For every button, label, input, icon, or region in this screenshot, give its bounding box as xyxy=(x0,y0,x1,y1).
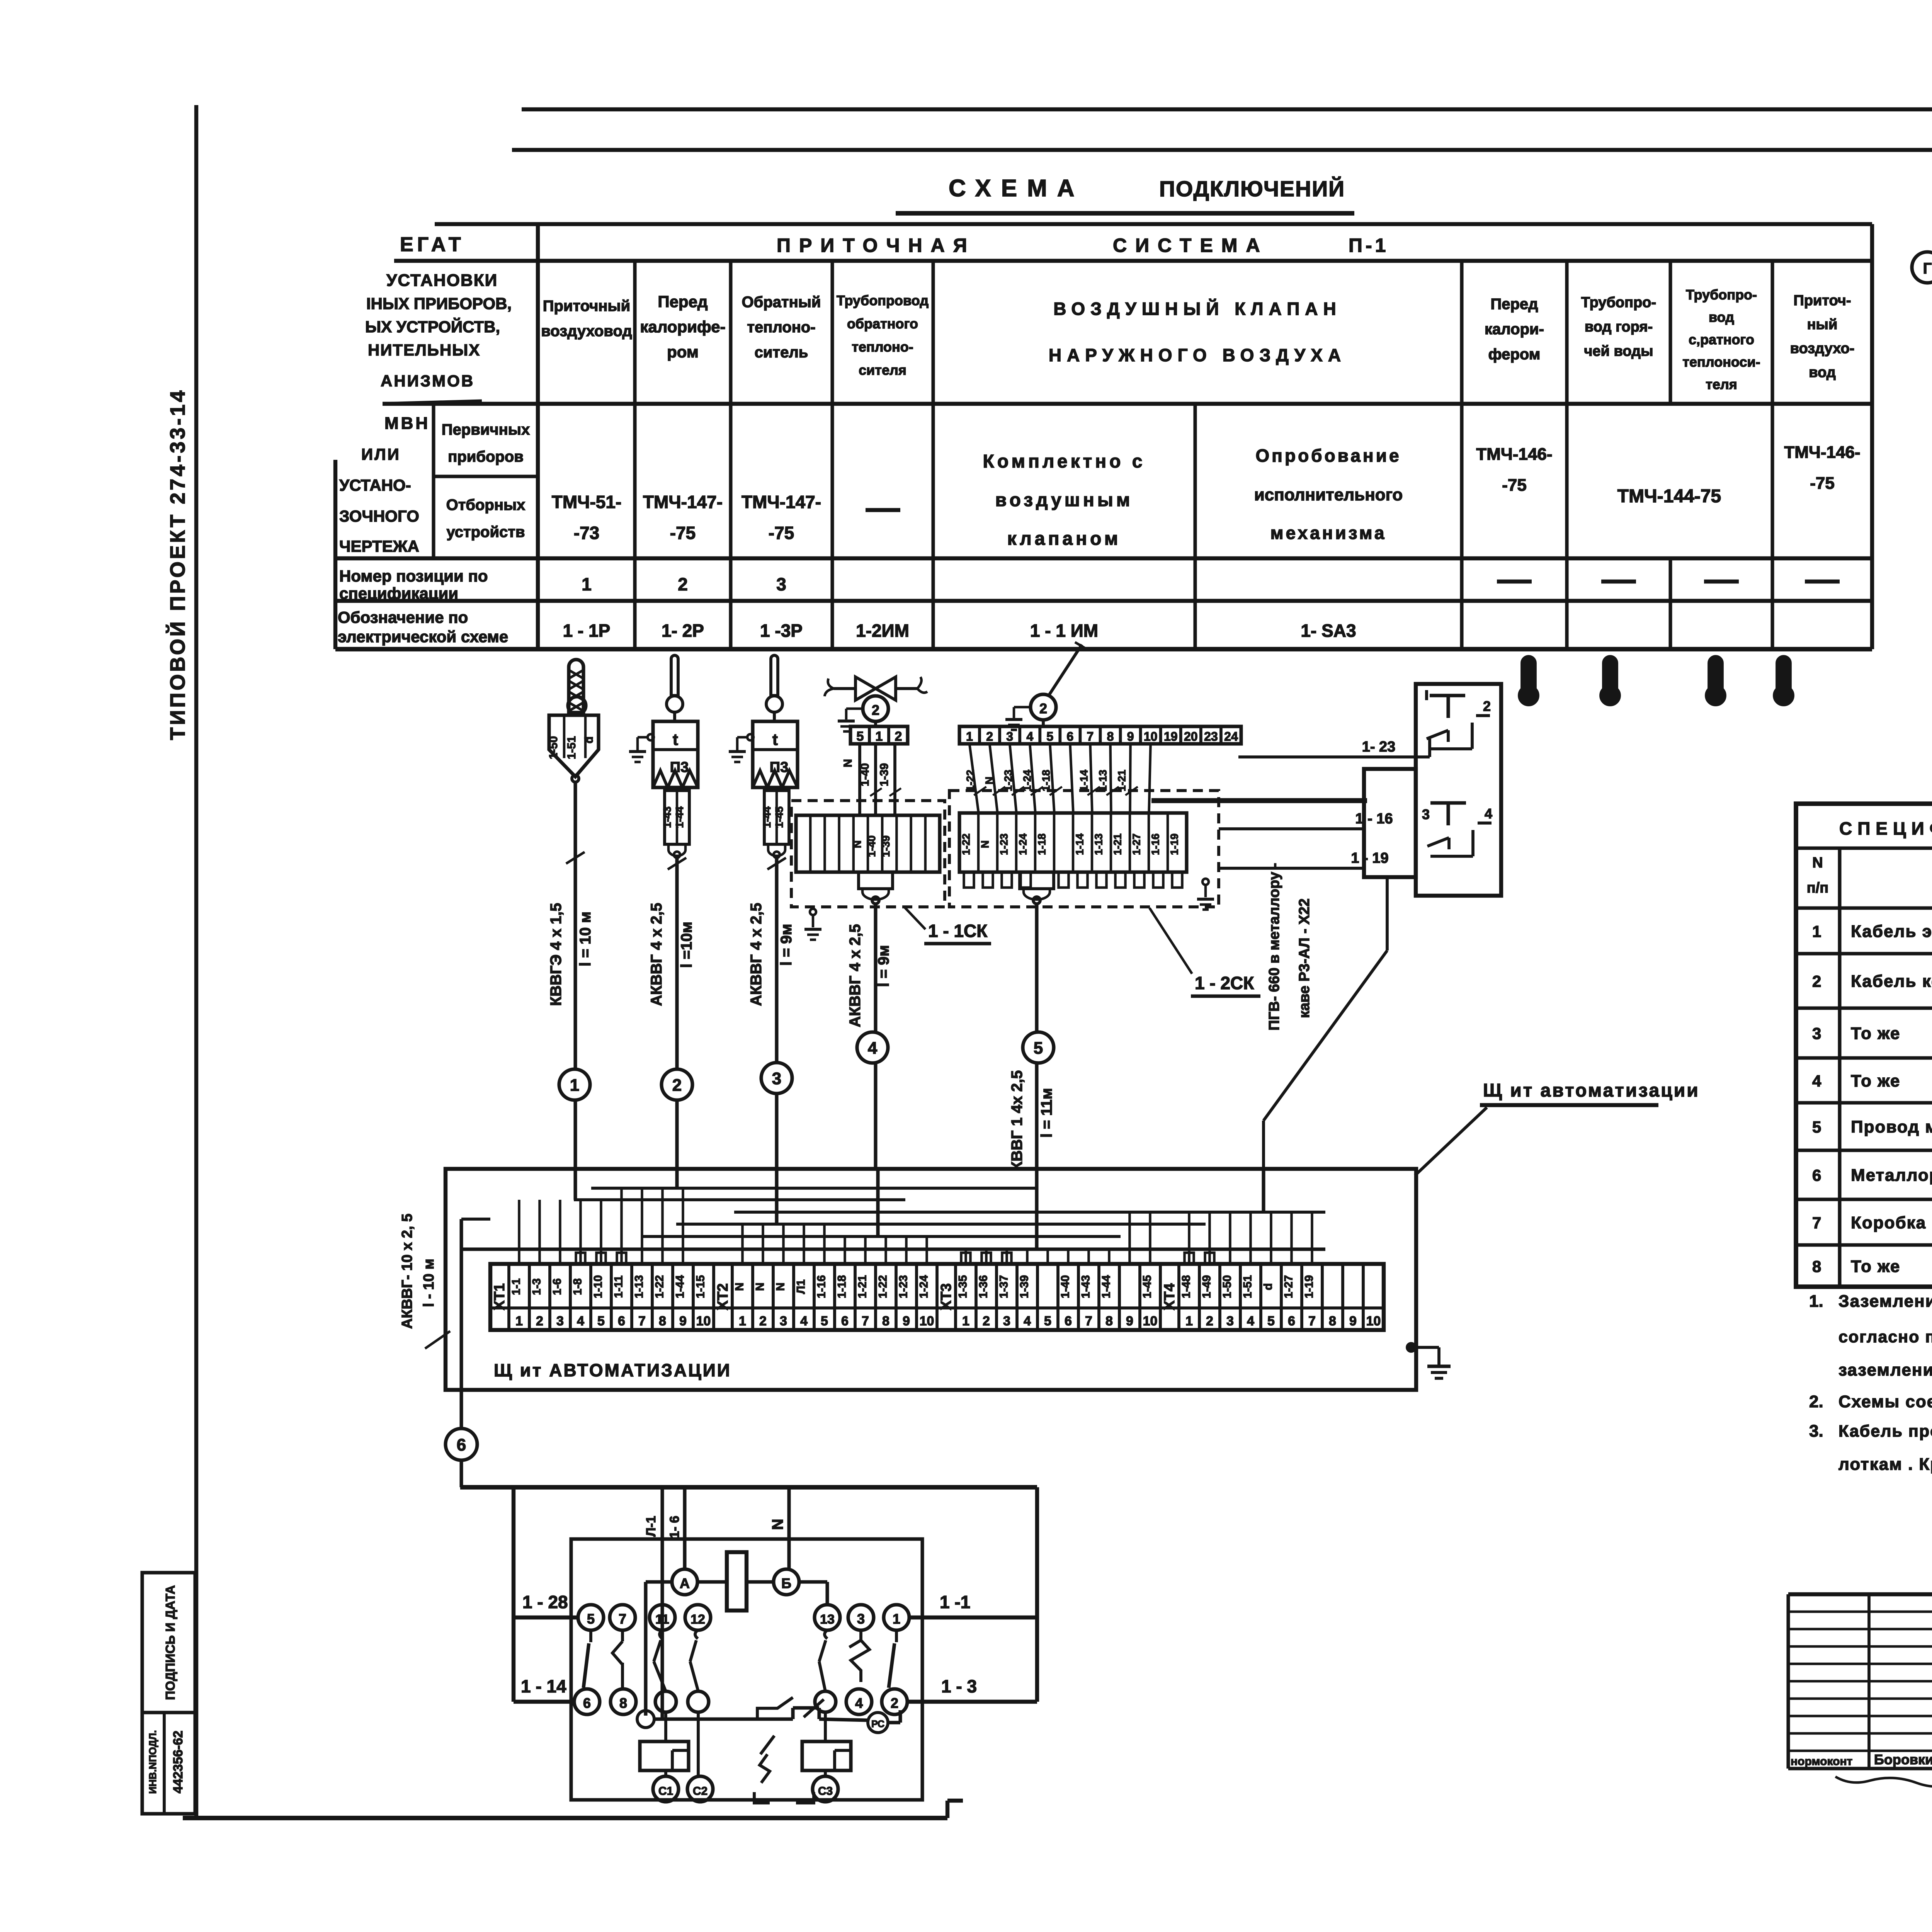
svg-text:7: 7 xyxy=(638,1314,646,1328)
terminal 8 xyxy=(611,1689,636,1714)
svg-text:5: 5 xyxy=(821,1314,828,1328)
title block left grid xyxy=(1788,1611,1932,1613)
junction box 1-1СК (dashed) xyxy=(791,801,945,907)
svg-text:3: 3 xyxy=(1226,1314,1234,1328)
svg-text:1-43: 1-43 xyxy=(1080,1275,1092,1298)
relay circuit right drop wire xyxy=(1035,1487,1039,1702)
svg-text:1-45: 1-45 xyxy=(1141,1275,1154,1298)
svg-text:Металлорукав: Металлорукав xyxy=(1851,1166,1932,1185)
svg-text:воздушным: воздушным xyxy=(995,490,1133,510)
svg-text:3: 3 xyxy=(556,1314,564,1328)
svg-text:теплоно-: теплоно- xyxy=(747,319,815,336)
terminal strip below sensor xyxy=(665,791,689,844)
svg-text:1 - 1СК: 1 - 1СК xyxy=(928,921,988,941)
svg-text:нормоконт: нормоконт xyxy=(1791,1755,1852,1768)
svg-text:1-36: 1-36 xyxy=(977,1275,990,1298)
svg-text:1-11: 1-11 xyxy=(612,1276,625,1298)
contact 13 xyxy=(825,1630,827,1639)
svg-text:12: 12 xyxy=(690,1612,705,1627)
terminal 13 xyxy=(815,1605,840,1630)
wire 1-6 into relay xyxy=(683,1487,686,1569)
svg-text:1- 23: 1- 23 xyxy=(1362,739,1396,755)
svg-text:5: 5 xyxy=(587,1611,595,1627)
panel left cable down to relay circuit xyxy=(459,1219,463,1429)
svg-text:3: 3 xyxy=(776,574,786,594)
pad under 13 xyxy=(815,1691,836,1712)
svg-text:6: 6 xyxy=(1288,1314,1295,1328)
svg-text:1-40: 1-40 xyxy=(859,763,871,786)
svg-text:вод горя-: вод горя- xyxy=(1585,319,1653,335)
panel ground (right) xyxy=(1407,1344,1415,1351)
sensor П3 at x=2004 xyxy=(771,655,778,696)
svg-text:лоткам . Крепить скобками.: лоткам . Крепить скобками. xyxy=(1838,1455,1932,1474)
svg-text:9: 9 xyxy=(903,1314,910,1328)
svg-text:электрической схеме: электрической схеме xyxy=(338,628,508,646)
svg-text:Перед: Перед xyxy=(658,293,707,311)
svg-text:19: 19 xyxy=(1164,730,1178,743)
svg-text:ВОЗДУШНЫЙ КЛАПАН: ВОЗДУШНЫЙ КЛАПАН xyxy=(1053,299,1341,319)
sensor B1 duct thermometer (hatched) xyxy=(569,660,583,713)
svg-text:1 - 16: 1 - 16 xyxy=(1355,811,1393,827)
svg-text:ТМЧ-51-: ТМЧ-51- xyxy=(552,492,622,512)
plan axis Г circle xyxy=(1912,252,1932,283)
terminal strip below sensor xyxy=(764,791,789,844)
node C3 xyxy=(813,1776,838,1802)
svg-text:ХТ1: ХТ1 xyxy=(492,1283,508,1310)
leader 1-1СК xyxy=(904,907,925,929)
svg-text:приборов: приборов xyxy=(448,448,524,465)
svg-text:7: 7 xyxy=(1087,730,1094,743)
svg-text:НИТЕЛЬНЫХ: НИТЕЛЬНЫХ xyxy=(368,341,480,359)
terminal 2 xyxy=(882,1689,907,1714)
svg-text:1-50: 1-50 xyxy=(1221,1275,1234,1298)
wire Л1 into relay xyxy=(660,1487,664,1719)
svg-text:2: 2 xyxy=(759,1314,767,1328)
svg-text:9: 9 xyxy=(679,1314,687,1328)
svg-text:ПОДПИСЬ И ДАТА: ПОДПИСЬ И ДАТА xyxy=(163,1585,177,1700)
svg-text:4: 4 xyxy=(868,1039,878,1058)
svg-text:1-48: 1-48 xyxy=(1180,1275,1193,1298)
svg-text:Перед: Перед xyxy=(1490,296,1538,313)
svg-text:Номер позиции по: Номер позиции по xyxy=(339,567,488,585)
svg-text:Г: Г xyxy=(1923,260,1932,277)
svg-text:7: 7 xyxy=(1812,1214,1821,1232)
connection box КСК-8 (small) xyxy=(1364,769,1416,877)
sensor B1 connection head with labels 1-50 1-51 d xyxy=(549,715,599,777)
svg-text:8: 8 xyxy=(1812,1257,1821,1276)
terminal 4 xyxy=(846,1689,872,1714)
svg-text:Приточный: Приточный xyxy=(543,298,630,315)
svg-text:1: 1 xyxy=(893,1611,900,1627)
svg-text:l = 10 м: l = 10 м xyxy=(577,912,594,966)
svg-text:3: 3 xyxy=(1003,1314,1010,1328)
svg-text:7: 7 xyxy=(619,1611,626,1627)
svg-text:3: 3 xyxy=(857,1611,865,1627)
svg-text:1-51: 1-51 xyxy=(1242,1275,1254,1298)
svg-text:-75: -75 xyxy=(1502,476,1527,495)
svg-text:1-43: 1-43 xyxy=(661,806,673,828)
svg-text:1-40: 1-40 xyxy=(1059,1275,1072,1298)
terminal 3 xyxy=(848,1605,874,1630)
svg-text:1 - 19: 1 - 19 xyxy=(1351,850,1388,866)
node A xyxy=(672,1569,697,1595)
wire W1 from sensor B1 down xyxy=(573,782,577,1069)
svg-text:Первичных: Первичных xyxy=(442,421,530,438)
svg-text:l = 11м: l = 11м xyxy=(1038,1088,1055,1138)
wires from long strip into 1-2СК xyxy=(969,744,978,813)
terminal 7 xyxy=(610,1605,635,1630)
svg-text:1-8: 1-8 xyxy=(571,1278,584,1295)
sheet frame top line 2 xyxy=(512,148,1932,152)
svg-text:механизма: механизма xyxy=(1270,523,1387,543)
svg-text:1-50: 1-50 xyxy=(547,736,560,759)
svg-text:1-23: 1-23 xyxy=(897,1275,910,1298)
svg-text:4: 4 xyxy=(1485,806,1492,821)
long terminal strip 1..24 xyxy=(959,726,1241,744)
svg-text:1-22: 1-22 xyxy=(964,770,976,791)
svg-text:ТМЧ-147-: ТМЧ-147- xyxy=(643,492,723,512)
svg-text:ром: ром xyxy=(667,343,699,361)
junction bus in relay xyxy=(637,1711,654,1728)
svg-text:1-21: 1-21 xyxy=(1116,770,1128,791)
svg-text:Трубопровод: Трубопровод xyxy=(837,293,929,308)
svg-text:1-37: 1-37 xyxy=(998,1275,1010,1298)
wire N into relay xyxy=(787,1487,791,1569)
svg-text:Комплектно с: Комплектно с xyxy=(983,451,1146,472)
svg-text:ХТ4: ХТ4 xyxy=(1162,1283,1178,1310)
svg-text:каве Р3-АЛ - Х22: каве Р3-АЛ - Х22 xyxy=(1296,898,1313,1018)
connection box КСК-16 (outer) xyxy=(1416,684,1501,896)
svg-text:1: 1 xyxy=(570,1076,579,1095)
internal wires in КСК boxes xyxy=(1416,755,1430,759)
1-2СК cable gland xyxy=(1020,872,1054,889)
svg-text:обратного: обратного xyxy=(847,316,918,332)
svg-text:N: N xyxy=(733,1282,746,1291)
valve actuator circle 2 xyxy=(874,694,877,696)
svg-text:ПГВ- 660 в металлору -: ПГВ- 660 в металлору - xyxy=(1266,863,1282,1031)
node C1 xyxy=(653,1776,679,1802)
svg-text:ХТ3: ХТ3 xyxy=(938,1283,954,1310)
svg-text:Боровкин: Боровкин xyxy=(1874,1752,1932,1767)
svg-text:1-1: 1-1 xyxy=(510,1278,523,1295)
svg-text:заземления.: заземления. xyxy=(1838,1361,1932,1379)
valve terminal strip 5 1 2 xyxy=(874,721,877,726)
svg-text:Б: Б xyxy=(781,1575,791,1591)
svg-text:7: 7 xyxy=(1308,1314,1316,1328)
svg-text:1-39: 1-39 xyxy=(880,835,892,857)
svg-text:ИЛИ: ИЛИ xyxy=(361,445,401,463)
svg-text:6: 6 xyxy=(1812,1166,1821,1184)
wires from valve strip to box 1-1СК xyxy=(858,744,861,815)
sensor B1 head circle xyxy=(568,697,586,714)
svg-text:l - 10 м: l - 10 м xyxy=(421,1259,437,1307)
wire from КСК down to panel xyxy=(1262,1121,1265,1169)
svg-text:N: N xyxy=(1812,855,1823,871)
svg-text:воздухо-: воздухо- xyxy=(1790,340,1855,357)
svg-text:1-35: 1-35 xyxy=(957,1275,969,1298)
svg-text:2: 2 xyxy=(672,1076,682,1095)
svg-text:То же: То же xyxy=(1851,1024,1900,1043)
sheet frame top line 1 xyxy=(522,107,1932,111)
svg-text:1-23: 1-23 xyxy=(998,833,1010,855)
svg-text:1: 1 xyxy=(739,1314,746,1328)
svg-text:1-10: 1-10 xyxy=(592,1275,605,1298)
svg-text:-75: -75 xyxy=(670,523,696,543)
svg-text:согласно правил устройства: согласно правил устройства электроустано… xyxy=(1838,1328,1932,1346)
svg-text:1-22: 1-22 xyxy=(960,833,972,855)
svg-text:КВВГЭ 4 х 1,5: КВВГЭ 4 х 1,5 xyxy=(548,903,565,1006)
svg-text:ЧЕРТЕЖА: ЧЕРТЕЖА xyxy=(339,537,419,555)
svg-text:1-22: 1-22 xyxy=(877,1275,889,1298)
svg-text:1-23: 1-23 xyxy=(1002,770,1014,791)
terminal 1 xyxy=(884,1605,909,1630)
svg-text:АНИЗМОВ: АНИЗМОВ xyxy=(381,372,474,390)
svg-text:1 - 1 ИМ: 1 - 1 ИМ xyxy=(1030,621,1098,641)
wire 1-1 from terminal 1 xyxy=(909,1616,1037,1619)
svg-text:ПОДКЛЮЧЕНИЙ: ПОДКЛЮЧЕНИЙ xyxy=(1159,176,1345,201)
svg-text:1-13: 1-13 xyxy=(1097,770,1109,791)
svg-text:ТМЧ-146-: ТМЧ-146- xyxy=(1476,445,1552,464)
svg-text:1-44: 1-44 xyxy=(674,1275,687,1298)
svg-text:13: 13 xyxy=(820,1612,835,1627)
svg-text:1-15: 1-15 xyxy=(694,1275,707,1298)
svg-text:8: 8 xyxy=(1329,1314,1336,1328)
svg-text:5: 5 xyxy=(1034,1039,1043,1058)
svg-text:1 - 28: 1 - 28 xyxy=(522,1592,568,1612)
svg-text:1-27: 1-27 xyxy=(1131,833,1143,855)
svg-text:фером: фером xyxy=(1488,346,1541,363)
svg-text:1.: 1. xyxy=(1809,1292,1823,1311)
thermometer at x=4616 xyxy=(1777,656,1790,692)
svg-text:калори-: калори- xyxy=(1485,321,1544,338)
node circle 5 xyxy=(1023,1032,1054,1063)
svg-text:3: 3 xyxy=(780,1314,787,1328)
svg-text:4: 4 xyxy=(1247,1314,1254,1328)
ground at 1-2СК right xyxy=(1202,879,1209,885)
wire to C1 xyxy=(664,1712,667,1742)
contact 7-8 with hook xyxy=(621,1630,624,1641)
svg-text:2: 2 xyxy=(872,702,879,718)
svg-text:Провод медный: Провод медный xyxy=(1851,1117,1932,1136)
svg-text:1- 6: 1- 6 xyxy=(667,1516,682,1539)
svg-text:1-40: 1-40 xyxy=(866,835,878,857)
svg-text:УСТАНОВКИ: УСТАНОВКИ xyxy=(386,271,498,290)
svg-text:2: 2 xyxy=(678,574,688,594)
svg-text:КВВГ 1 4х 2,5: КВВГ 1 4х 2,5 xyxy=(1009,1070,1026,1171)
svg-text:1 - 2СК: 1 - 2СК xyxy=(1195,973,1254,993)
svg-text:8: 8 xyxy=(619,1695,627,1711)
svg-text:1-39: 1-39 xyxy=(878,763,891,786)
svg-text:1-16: 1-16 xyxy=(1150,833,1162,855)
relay coil C1 element xyxy=(640,1742,689,1770)
node circle 3 xyxy=(761,1063,792,1094)
svg-text:1-6: 1-6 xyxy=(551,1278,564,1295)
svg-text:СХЕМА: СХЕМА xyxy=(949,175,1085,202)
svg-text:1 - 14: 1 - 14 xyxy=(521,1676,566,1696)
1-1СК terminal row xyxy=(796,815,940,872)
svg-text:1: 1 xyxy=(966,730,973,743)
svg-text:1-21: 1-21 xyxy=(1112,833,1124,855)
svg-text:Коробка соединительная: Коробка соединительная xyxy=(1851,1213,1932,1232)
svg-text:чей воды: чей воды xyxy=(1584,343,1653,359)
svg-text:2: 2 xyxy=(986,730,993,743)
svg-text:N: N xyxy=(774,1282,787,1291)
svg-text:Кабель экранированный: Кабель экранированный xyxy=(1851,922,1932,941)
svg-text:Щ ит АВТОМАТИЗАЦИИ: Щ ит АВТОМАТИЗАЦИИ xyxy=(494,1360,731,1380)
thermometer at x=3956 xyxy=(1522,656,1535,692)
svg-text:9: 9 xyxy=(1127,730,1134,743)
contact 1-2 xyxy=(895,1630,898,1642)
svg-text:2: 2 xyxy=(1483,698,1491,714)
node circle 6 xyxy=(446,1429,477,1460)
svg-text:10: 10 xyxy=(1366,1314,1381,1328)
panel internal distribution wiring xyxy=(461,1247,1325,1251)
svg-text:Приточ-: Приточ- xyxy=(1794,293,1851,309)
svg-text:теплоноси-: теплоноси- xyxy=(1682,354,1760,370)
spec table СПЕЦИФИКАЦИЯ МОНТАЖНЫХ ИЗДЕЛИЙ xyxy=(1796,804,1932,1287)
svg-text:4: 4 xyxy=(1024,1314,1031,1328)
terminal 6 xyxy=(574,1689,600,1714)
svg-text:1: 1 xyxy=(582,574,592,594)
svg-text:3: 3 xyxy=(1006,730,1013,743)
svg-text:воздуховод: воздуховод xyxy=(541,323,632,340)
1-2СК terminal row xyxy=(959,813,1187,872)
coil connection wires xyxy=(697,1580,727,1583)
svg-text:7: 7 xyxy=(1085,1314,1092,1328)
svg-text:8: 8 xyxy=(659,1314,666,1328)
svg-text:24: 24 xyxy=(1224,730,1238,743)
relay circuit left drop wire xyxy=(512,1487,515,1702)
terminal 11 xyxy=(650,1605,675,1630)
title block top border xyxy=(1788,1592,1932,1596)
svg-text:ЗОЧНОГО: ЗОЧНОГО xyxy=(339,507,419,525)
svg-text:Заземление приборов щита и: Заземление приборов щита и металлических… xyxy=(1838,1292,1932,1311)
svg-text:2: 2 xyxy=(536,1314,543,1328)
wire 1-23 to КСК box xyxy=(1238,755,1416,759)
terminal 12 xyxy=(685,1605,711,1630)
svg-text:1-51: 1-51 xyxy=(565,736,578,759)
svg-text:АКВВГ- 10 х 2, 5: АКВВГ- 10 х 2, 5 xyxy=(399,1214,415,1329)
svg-text:Л1: Л1 xyxy=(795,1279,808,1294)
svg-text:Кабель контрольный: Кабель контрольный xyxy=(1851,972,1932,991)
svg-text:10: 10 xyxy=(696,1314,711,1328)
wire to C2 xyxy=(697,1712,700,1776)
svg-text:1-22: 1-22 xyxy=(653,1275,666,1298)
wire to C3 xyxy=(824,1712,827,1742)
svg-text:1: 1 xyxy=(515,1314,523,1328)
node circle 4 xyxy=(857,1032,888,1063)
svg-text:П-1: П-1 xyxy=(1349,235,1389,256)
svg-text:4: 4 xyxy=(800,1314,808,1328)
svg-text:вод: вод xyxy=(1809,364,1836,381)
air valve symbol (bowtie) xyxy=(855,677,876,700)
node C2 xyxy=(687,1776,713,1802)
contact 11 xyxy=(660,1630,662,1639)
svg-text:1-2ИМ: 1-2ИМ xyxy=(856,621,909,641)
svg-text:ЫХ УСТРОЙСТВ,: ЫХ УСТРОЙСТВ, xyxy=(365,317,500,336)
svg-text:ситель: ситель xyxy=(755,344,808,361)
svg-text:1: 1 xyxy=(876,729,883,744)
svg-text:-73: -73 xyxy=(574,523,599,543)
thermometer at x=4167 xyxy=(1604,656,1617,692)
svg-text:4: 4 xyxy=(1026,730,1033,743)
wire W4 from 1-1СК down xyxy=(874,904,877,1032)
thermal release symbol (center) xyxy=(757,1697,793,1719)
svg-text:АКВВГ 4 х 2,5: АКВВГ 4 х 2,5 xyxy=(648,903,665,1006)
value dash xyxy=(866,508,900,512)
svg-text:АКВВГ 4 х 2,5: АКВВГ 4 х 2,5 xyxy=(748,903,765,1006)
svg-text:1-14: 1-14 xyxy=(1078,770,1090,791)
svg-text:d: d xyxy=(1262,1283,1275,1290)
svg-text:1 - 1Р: 1 - 1Р xyxy=(563,621,611,641)
ground at valve xyxy=(846,707,863,710)
relay coil C3 element xyxy=(802,1742,851,1770)
svg-text:4: 4 xyxy=(855,1695,863,1711)
svg-text:1-14: 1-14 xyxy=(1074,833,1086,855)
svg-text:6: 6 xyxy=(841,1314,849,1328)
svg-text:Обозначение по: Обозначение по xyxy=(338,608,468,626)
svg-text:5: 5 xyxy=(1044,1314,1051,1328)
svg-text:1-24: 1-24 xyxy=(1017,833,1029,855)
svg-text:ТИПОВОЙ ПРОЕКТ 274-33-14: ТИПОВОЙ ПРОЕКТ 274-33-14 xyxy=(166,388,189,740)
svg-text:1-27: 1-27 xyxy=(1282,1275,1295,1298)
svg-text:ХТ2: ХТ2 xyxy=(715,1283,731,1310)
wire 1-16 to КСК box xyxy=(1219,827,1364,830)
damper actuator circle 2 (second) xyxy=(1031,694,1056,720)
svg-text:ТМЧ-147-: ТМЧ-147- xyxy=(742,492,821,512)
node РС xyxy=(868,1713,888,1733)
svg-text:1: 1 xyxy=(1185,1314,1193,1328)
svg-text:l = 9м: l = 9м xyxy=(875,945,892,987)
svg-text:РС: РС xyxy=(871,1719,884,1730)
contact 5-6 xyxy=(589,1630,592,1642)
contact 12 xyxy=(695,1630,698,1639)
svg-text:1 - 3: 1 - 3 xyxy=(941,1676,977,1696)
svg-text:1-19: 1-19 xyxy=(1303,1275,1316,1298)
svg-text:теля: теля xyxy=(1706,376,1737,392)
svg-text:Л-1: Л-1 xyxy=(644,1516,658,1537)
svg-text:5: 5 xyxy=(857,729,864,744)
svg-text:1-18: 1-18 xyxy=(1040,770,1052,791)
svg-text:А: А xyxy=(680,1575,690,1591)
wire 1-2СК to connection boxes (thick) xyxy=(1151,798,1367,803)
svg-text:1- SА3: 1- SА3 xyxy=(1301,621,1356,641)
svg-text:1-16: 1-16 xyxy=(815,1275,828,1298)
svg-text:спецификации: спецификации xyxy=(339,584,458,602)
svg-text:вод: вод xyxy=(1709,309,1734,325)
svg-text:8: 8 xyxy=(882,1314,889,1328)
svg-text:калорифе-: калорифе- xyxy=(640,318,725,336)
margin box ПОДПИСЬ И ДАТА / ИНВ.N ПОДЛ xyxy=(142,1573,195,1814)
svg-text:6: 6 xyxy=(618,1314,625,1328)
node Б xyxy=(774,1569,799,1595)
svg-text:клапаном: клапаном xyxy=(1007,529,1121,549)
svg-text:с,ратного: с,ратного xyxy=(1689,332,1754,347)
wire W5 from 1-2СК down xyxy=(1035,904,1038,1032)
svg-text:l = 9м: l = 9м xyxy=(778,924,795,966)
svg-text:d: d xyxy=(583,736,595,743)
svg-text:Схемы соединений см. альбом: Схемы соединений см. альбом xyxy=(1838,1392,1932,1411)
svg-text:То же: То же xyxy=(1851,1071,1900,1090)
ground at 1-1СК xyxy=(810,909,816,915)
svg-text:МВН: МВН xyxy=(384,414,430,433)
leader 1-2СК xyxy=(1150,908,1192,974)
svg-text:1: 1 xyxy=(962,1314,969,1328)
svg-text:3: 3 xyxy=(772,1069,781,1088)
svg-text:8: 8 xyxy=(1107,730,1114,743)
svg-text:п/п: п/п xyxy=(1807,880,1828,896)
svg-text:6: 6 xyxy=(1066,730,1073,743)
